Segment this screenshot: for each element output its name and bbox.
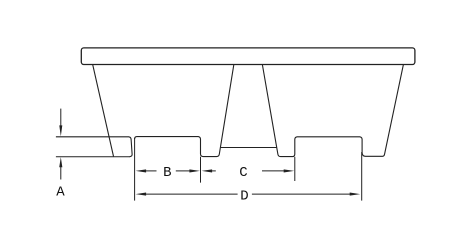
svg-text:B: B [163, 165, 171, 181]
svg-text:C: C [239, 165, 247, 181]
svg-text:D: D [240, 189, 248, 205]
svg-text:A: A [56, 185, 65, 201]
